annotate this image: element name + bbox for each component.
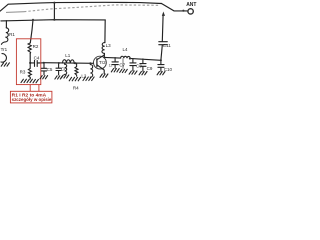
switch arrow bbox=[162, 12, 165, 16]
svg-text:C7: C7 bbox=[119, 62, 125, 67]
node C9 bbox=[142, 58, 144, 60]
ground Tr2 emitter bbox=[100, 74, 108, 77]
capacitor C7 bbox=[112, 58, 118, 68]
transistor Tr2 circle bbox=[94, 56, 107, 69]
svg-text:L2: L2 bbox=[81, 73, 87, 78]
wire C4 to C5 node bbox=[37, 62, 43, 64]
node bottom bbox=[53, 19, 55, 21]
coil L2 bbox=[90, 63, 92, 78]
dashed rail bbox=[6, 11, 24, 14]
Tr2 emitter arrow bbox=[102, 68, 105, 71]
svg-text:C4: C4 bbox=[34, 55, 40, 60]
Tr2 collector bbox=[97, 55, 105, 60]
svg-text:ANT: ANT bbox=[186, 2, 196, 8]
svg-text:L3: L3 bbox=[106, 43, 112, 48]
node collector bbox=[103, 56, 105, 58]
svg-text:C9: C9 bbox=[147, 66, 153, 71]
coil L1 secondary bbox=[65, 63, 67, 75]
wire: collector vertical bbox=[103, 20, 106, 58]
ground C6 bbox=[55, 76, 63, 79]
wire: C11 to C10 node bbox=[161, 45, 162, 60]
capacitor C5 bbox=[41, 63, 46, 75]
antenna terminal bbox=[188, 9, 193, 14]
red annotation box bbox=[10, 91, 52, 103]
svg-text:L4: L4 bbox=[123, 47, 129, 52]
ground Tr1 bbox=[1, 63, 9, 66]
resistor R4 bbox=[75, 63, 78, 76]
top rail (solid, to antenna switch) bbox=[0, 2, 162, 11]
ground stub x123 bbox=[120, 69, 128, 72]
svg-text:Tr2: Tr2 bbox=[99, 60, 106, 65]
capacitor C10 bbox=[158, 60, 164, 71]
node C6 bbox=[58, 62, 60, 64]
ground C5 bbox=[40, 76, 48, 79]
wire node to C4 bbox=[30, 62, 34, 64]
ground R3 bbox=[21, 79, 38, 83]
capacitor C8 bbox=[130, 59, 136, 71]
coil Tr1 primary bbox=[1, 28, 8, 45]
node C8 bbox=[129, 58, 131, 60]
Tr2 base bar bbox=[96, 58, 98, 67]
capacitor C9 bbox=[140, 59, 146, 71]
red box R1/R2 highlight bbox=[16, 39, 40, 85]
svg-text:R2: R2 bbox=[33, 44, 39, 49]
inductor L4 bbox=[121, 56, 131, 58]
svg-text:szczegóły w opisie: szczegóły w opisie bbox=[12, 97, 53, 102]
main wire right section bbox=[104, 56, 120, 59]
node top bbox=[53, 2, 55, 4]
lower rail bbox=[1, 20, 105, 21]
ground L1 secondary bbox=[61, 75, 69, 78]
Tr2 emitter bbox=[97, 65, 104, 74]
svg-text:12: 12 bbox=[109, 64, 113, 68]
capacitor C6 bbox=[56, 63, 61, 75]
node L2 top bbox=[89, 62, 91, 64]
main wire left section bbox=[44, 62, 94, 65]
node blade bbox=[182, 10, 184, 12]
red leader lines bbox=[30, 85, 39, 92]
inductor L3 bbox=[102, 43, 105, 54]
resistor R3 bbox=[28, 63, 31, 79]
inductor L1 bbox=[63, 60, 75, 64]
wire: rail interconnect bbox=[53, 3, 55, 20]
ground C7 bbox=[111, 69, 119, 72]
ground C8 bbox=[129, 71, 137, 74]
svg-text:R4: R4 bbox=[73, 85, 79, 90]
capacitor C4 bbox=[35, 60, 38, 66]
wire: rail to R2 bbox=[30, 20, 33, 43]
node after L1 bbox=[74, 62, 76, 64]
wire R2 to node bbox=[29, 53, 31, 63]
wire: feed to Tr1 bbox=[5, 21, 7, 28]
wire: C11 to switch arrow bbox=[161, 15, 164, 42]
svg-text:R1: R1 bbox=[9, 32, 15, 37]
svg-text:C11: C11 bbox=[163, 43, 171, 48]
ground R4 bbox=[69, 77, 80, 81]
node C5 bbox=[43, 62, 45, 64]
node C10 bbox=[160, 59, 162, 61]
capacitor C11 bbox=[159, 42, 168, 45]
ground L2 bbox=[83, 77, 94, 81]
resistor R2 bbox=[28, 43, 31, 53]
ground C10 bbox=[157, 72, 165, 75]
loop Tr1 secondary bbox=[1, 54, 6, 63]
ground C9 bbox=[139, 72, 147, 75]
svg-text:Tr1: Tr1 bbox=[1, 47, 8, 52]
node C7 bbox=[114, 57, 116, 59]
switch blade bbox=[162, 4, 188, 11]
svg-text:C5: C5 bbox=[47, 67, 53, 72]
svg-text:L1: L1 bbox=[65, 53, 71, 58]
svg-text:R3: R3 bbox=[20, 70, 26, 75]
wire stub x123 bbox=[122, 58, 124, 69]
node A bbox=[29, 62, 31, 64]
